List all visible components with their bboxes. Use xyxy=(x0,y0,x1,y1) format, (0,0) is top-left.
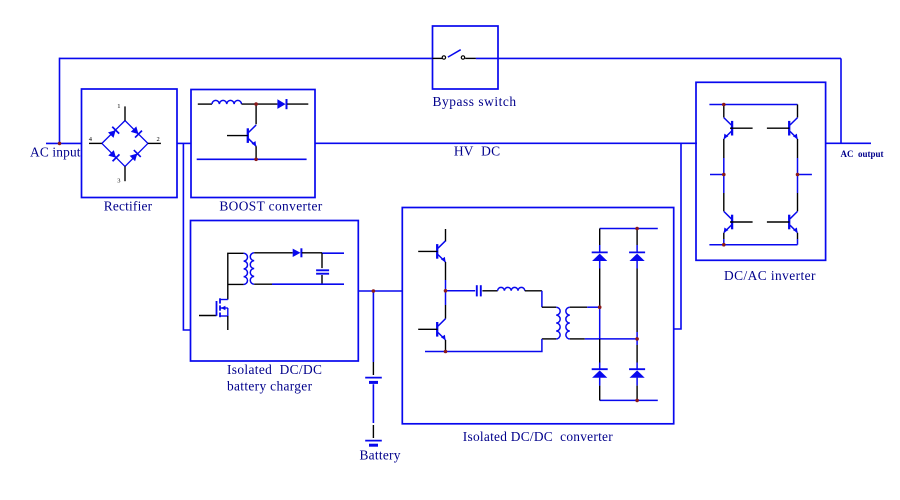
wire T2 primary top lead xyxy=(542,306,556,308)
capacitor C1 plate bottom xyxy=(316,273,329,275)
bridge diode bottom-right xyxy=(130,154,138,162)
svg-text:battery charger: battery charger xyxy=(227,379,313,394)
bridge pin 4 stub xyxy=(89,142,102,144)
transformer T2 secondary xyxy=(566,307,570,339)
wire switch stub left xyxy=(432,57,442,59)
bridge diode D3 xyxy=(592,251,608,253)
mosfet M1 drain stub xyxy=(220,299,228,301)
capacitor C2 plate left xyxy=(476,285,478,296)
wire D1 out xyxy=(287,103,308,105)
wire charger out top xyxy=(322,252,344,254)
svg-text:AC input: AC input xyxy=(30,144,81,159)
wire boost in xyxy=(198,103,212,105)
wire Q3 emitter down xyxy=(445,340,447,352)
transistor Q3 converter bottom xyxy=(436,322,438,337)
wire mid to cap xyxy=(446,290,476,292)
node bridge right mid xyxy=(635,337,639,341)
wire T2 secondary bottom lead xyxy=(570,338,585,340)
wire left leg mid xyxy=(723,139,725,158)
wire cap C1 bottom lead xyxy=(321,275,323,284)
wire Q2 emitter down xyxy=(445,262,447,280)
mosfet M1 source tie xyxy=(227,308,229,316)
svg-text:2: 2 xyxy=(157,136,160,143)
wire right leg bottom xyxy=(797,233,799,239)
svg-text:Isolated DC/DC: Isolated DC/DC xyxy=(227,362,322,377)
battery B1 plate short xyxy=(369,381,378,384)
node AC input junction xyxy=(58,142,62,146)
battery B2 plate short xyxy=(369,444,378,447)
svg-text:DC/AC inverter: DC/AC inverter xyxy=(724,268,816,283)
transformer T2 primary xyxy=(556,307,560,339)
wire battery drop blue xyxy=(372,291,374,362)
wire primary bottom lead xyxy=(228,283,244,285)
wire left leg bottom xyxy=(723,233,725,239)
inductor L1 xyxy=(212,100,242,104)
bridge diode D5 xyxy=(592,368,608,370)
svg-text:1: 1 xyxy=(117,103,120,110)
node inverter top-left xyxy=(722,103,726,107)
svg-text:BOOST converter: BOOST converter xyxy=(219,198,322,213)
wire AC input xyxy=(46,142,82,144)
mosfet M1 body stub xyxy=(220,307,228,309)
transistor Q1 boost xyxy=(247,128,249,143)
wire charger to converter xyxy=(358,290,402,292)
bridge pin 3 stub xyxy=(124,167,126,182)
wire Q3 base xyxy=(418,328,437,330)
inductor L2 xyxy=(498,287,525,290)
bridge right leg xyxy=(636,229,638,246)
node bridge top xyxy=(635,227,639,231)
wire Q5 base xyxy=(730,221,753,223)
node boost bottom xyxy=(254,158,258,162)
wire secondary top lead xyxy=(254,252,293,254)
battery B1 plate long xyxy=(365,377,382,379)
bridge pin 2 stub xyxy=(148,142,161,144)
bridge diode top-left xyxy=(108,130,116,138)
wire rectifier to boost xyxy=(177,142,191,144)
switch contact circle left xyxy=(442,56,445,59)
mosfet M1 body arrow xyxy=(221,306,226,311)
node boost top xyxy=(254,102,258,106)
wire charger bottom rail xyxy=(272,283,344,285)
diode D2 charger xyxy=(293,249,301,257)
wire T2 secondary top lead xyxy=(570,306,587,308)
node bridge bottom xyxy=(635,399,639,403)
transistor Q7 inverter xyxy=(788,215,790,230)
transformer T1 primary xyxy=(244,253,248,284)
wire inverter mid-left stub xyxy=(710,174,724,176)
wire battery drop black xyxy=(372,362,374,375)
transistor Q5 inverter xyxy=(731,215,733,230)
wire cap C1 top lead xyxy=(321,253,323,268)
wire battery mid black xyxy=(372,425,374,438)
wire Q7 base xyxy=(767,221,790,223)
switch blade xyxy=(448,50,461,57)
wire Q6 base xyxy=(767,127,790,129)
node inverter bottom-left xyxy=(722,243,726,247)
wire L2 to transformer xyxy=(525,290,542,292)
bypass switch box xyxy=(433,26,499,89)
wire bypass drop right xyxy=(840,58,842,143)
wire HV DC bus xyxy=(315,142,697,144)
svg-text:Isolated DC/DC converter: Isolated DC/DC converter xyxy=(463,429,613,444)
rectifier block box xyxy=(82,89,178,198)
capacitor C2 plate right xyxy=(480,285,482,296)
mosfet M1 channel xyxy=(219,298,221,303)
svg-text:AC output: AC output xyxy=(841,149,884,159)
node inverter mid-left xyxy=(722,173,726,177)
wire T2 primary top corner xyxy=(541,291,543,307)
boost bottom rail xyxy=(197,158,307,160)
charger block box xyxy=(191,221,359,362)
svg-text:3: 3 xyxy=(117,178,120,185)
wire Q3 collector down xyxy=(445,291,447,305)
wire Q1 emitter xyxy=(255,146,257,159)
wire battery mid blue xyxy=(372,384,374,423)
boost block box xyxy=(191,90,315,198)
bridge diode D4 xyxy=(629,251,645,253)
wire M1 gate lead xyxy=(199,315,217,317)
node converter mid xyxy=(444,289,448,293)
bridge bottom rail xyxy=(600,399,658,401)
wire Q2 base xyxy=(418,250,437,252)
svg-text:Rectifier: Rectifier xyxy=(104,198,153,213)
bridge diode top-right xyxy=(131,126,139,134)
wire D2 out xyxy=(302,252,322,254)
node battery tap xyxy=(372,289,376,293)
bridge top rail xyxy=(600,228,658,230)
transistor Q4 inverter xyxy=(731,121,733,136)
svg-text:DC: DC xyxy=(481,144,500,159)
wire cap to inductor xyxy=(482,290,497,292)
converter block box xyxy=(402,208,673,424)
wire AC output xyxy=(826,142,871,144)
wire switch stub right xyxy=(465,57,476,59)
wire Q1 collector xyxy=(255,104,257,124)
svg-text:HV: HV xyxy=(454,144,474,159)
wire Q1 base xyxy=(227,135,248,137)
bridge pin 1 stub xyxy=(124,106,126,120)
wire right leg top xyxy=(797,105,799,118)
battery B2 plate long xyxy=(365,440,382,442)
diode D1 boost xyxy=(277,99,285,109)
wire T2 primary bottom lead xyxy=(542,338,556,340)
svg-text:Bypass switch: Bypass switch xyxy=(433,94,517,109)
wire M1 source down xyxy=(227,316,229,330)
bridge left leg xyxy=(599,229,601,246)
node inverter mid-right xyxy=(796,173,800,177)
bridge diamond xyxy=(102,121,148,167)
capacitor C1 plate top xyxy=(316,269,329,271)
wire inverter mid-right stub xyxy=(798,174,812,176)
node bridge left mid xyxy=(598,305,602,309)
transformer T1 secondary xyxy=(250,253,254,284)
wire right leg mid xyxy=(797,139,799,158)
transistor Q2 converter top xyxy=(436,244,438,259)
wire bypass feed left xyxy=(60,57,433,59)
inverter top rail xyxy=(709,104,797,106)
bridge diode D6 xyxy=(629,368,645,370)
wire Q4 base xyxy=(730,127,753,129)
bridge diode bottom-left xyxy=(108,150,116,158)
wire left drop xyxy=(59,58,61,144)
node converter bottom xyxy=(444,350,448,354)
wire L1 to node xyxy=(242,103,278,105)
wire primary top lead xyxy=(228,253,244,299)
inverter block box xyxy=(696,82,826,260)
mosfet M1 gate bar xyxy=(216,301,218,316)
wire drop to charger xyxy=(183,143,190,330)
wire bypass feed right xyxy=(476,57,841,59)
wire T2 primary return xyxy=(425,339,542,352)
mosfet M1 source stub xyxy=(220,315,228,317)
wire Q2 collector stub xyxy=(445,229,447,242)
switch contact circle right xyxy=(461,56,464,59)
transistor Q6 inverter xyxy=(788,121,790,136)
svg-text:Battery: Battery xyxy=(360,447,401,462)
wire left leg top xyxy=(723,105,725,118)
wire secondary bottom lead xyxy=(254,283,272,285)
wire HV DC drop to converter xyxy=(674,143,681,329)
inverter bottom rail xyxy=(709,244,797,246)
